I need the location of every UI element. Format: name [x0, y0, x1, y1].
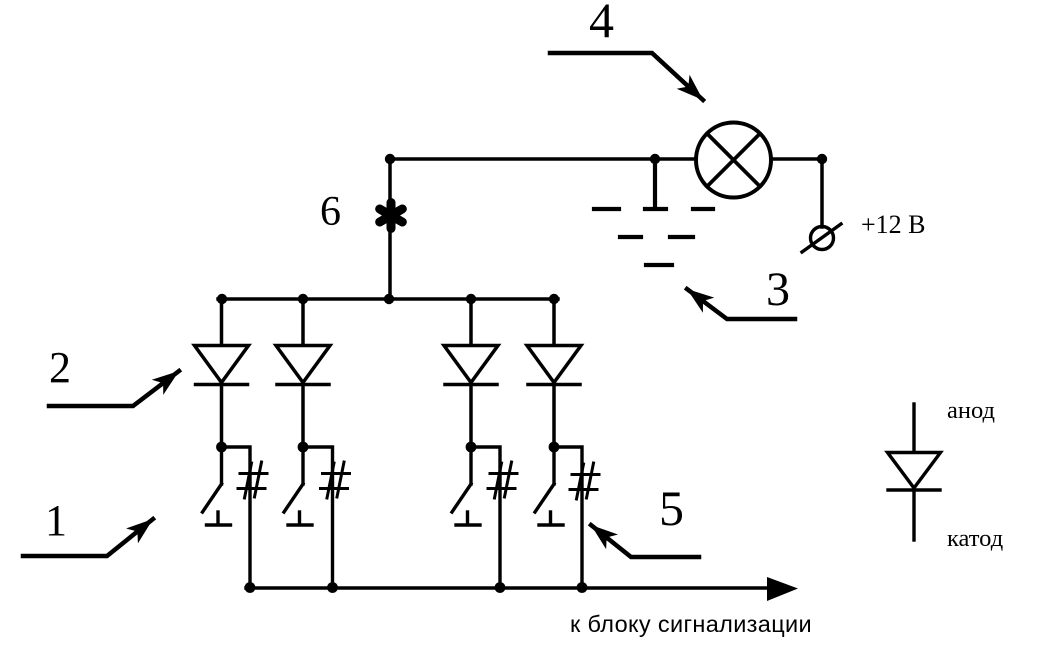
lamp HL1 (item 4) — [696, 123, 771, 198]
hash mark on SA2 drop wire — [321, 462, 350, 498]
junction dots on output bus — [245, 582, 588, 593]
leader arrow for label 2 — [49, 371, 179, 406]
arrowhead of output bus — [767, 577, 798, 601]
svg-text:1: 1 — [45, 496, 67, 545]
wire: lamp node down to diode bus — [388, 159, 392, 299]
legend diode symbol — [888, 404, 941, 540]
svg-text:6: 6 — [320, 189, 341, 235]
svg-text:анод: анод — [947, 397, 995, 424]
fuse / flasher element (item 6, star) — [380, 203, 403, 229]
bus wire: diode anode bus — [218, 297, 558, 301]
svg-text:4: 4 — [589, 0, 614, 48]
connector terminal +12V — [802, 224, 841, 252]
diode VD2 — [276, 299, 330, 444]
wire: top feed from node to lamp — [390, 157, 695, 161]
leader arrow for label 1 — [23, 519, 153, 556]
junction: +12V tap node — [817, 154, 827, 164]
leader arrow for label 4 — [550, 53, 703, 100]
leader arrow for label 3 — [687, 289, 795, 319]
hash mark on SA3 drop wire — [488, 462, 517, 498]
junction: ground tap node — [650, 154, 660, 164]
wire: lamp to +12V terminal — [772, 157, 822, 161]
door switch SA3 (item 1) — [452, 442, 500, 588]
svg-text:к блоку сигнализации: к блоку сигнализации — [570, 611, 812, 637]
svg-text:катод: катод — [947, 525, 1003, 552]
diode VD4 — [527, 299, 581, 444]
hash mark on SA1 drop wire — [238, 462, 267, 498]
junction dots on anode bus — [217, 294, 559, 304]
door switch SA4 (item 5) — [535, 442, 582, 588]
svg-text:2: 2 — [49, 343, 71, 392]
svg-text:+12 В: +12 В — [861, 210, 926, 239]
diode VD3 — [444, 299, 498, 444]
battery / chassis ground (item 3) — [594, 159, 713, 265]
junction: top-left corner node — [385, 154, 395, 164]
hash mark on SA4 drop wire — [570, 463, 599, 499]
bus wire: output bus to signalling unit — [246, 586, 770, 590]
wire: +12V terminal drop — [820, 159, 824, 227]
door switch SA2 (item 1) — [284, 442, 333, 588]
svg-text:5: 5 — [659, 480, 684, 536]
leader arrow for label 5 — [591, 525, 699, 557]
svg-text:3: 3 — [766, 263, 790, 316]
door switch SA1 (item 1) — [203, 442, 251, 588]
diode VD1 — [195, 299, 249, 444]
